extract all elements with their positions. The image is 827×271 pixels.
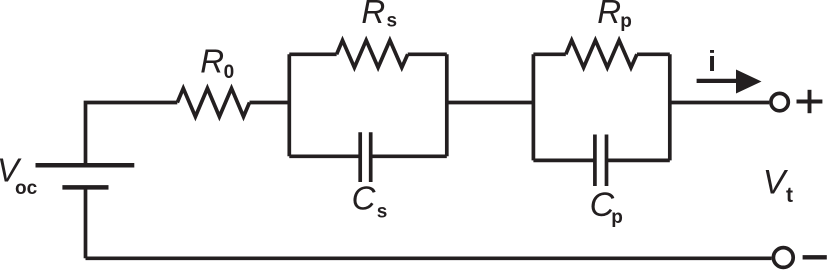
plus sign — [797, 90, 823, 113]
capacitor Cs — [360, 132, 371, 182]
wire — [408, 52, 447, 56]
svg-text:p: p — [611, 207, 623, 228]
resistor Rs — [337, 40, 408, 67]
label Vt — [763, 164, 793, 208]
svg-text:R: R — [200, 43, 224, 80]
wire — [250, 101, 290, 105]
wire — [84, 187, 88, 258]
resistor R0 — [177, 88, 249, 116]
wire — [533, 52, 565, 56]
wire — [533, 159, 595, 163]
wire — [670, 101, 769, 105]
svg-text:R: R — [597, 0, 621, 30]
svg-text:oc: oc — [15, 178, 38, 199]
label Voc — [0, 152, 38, 199]
capacitor Cp — [595, 135, 607, 187]
svg-text:s: s — [377, 201, 388, 222]
terminal - circle — [773, 248, 793, 268]
wire — [447, 101, 534, 105]
wire — [371, 154, 447, 158]
battery Voc top plate — [36, 163, 135, 168]
svg-text:i: i — [708, 46, 716, 78]
wire — [289, 52, 336, 56]
wire — [637, 52, 670, 56]
svg-text:0: 0 — [224, 62, 235, 83]
label R0 — [200, 43, 234, 83]
label Cp — [590, 186, 623, 228]
svg-text:s: s — [387, 11, 398, 32]
node: RC1 right junction — [445, 54, 449, 156]
wire — [607, 159, 670, 163]
current arrow shaft — [697, 79, 739, 83]
node: RC2 right junction — [668, 54, 672, 160]
wire — [86, 103, 178, 164]
svg-text:V: V — [763, 164, 789, 202]
svg-text:R: R — [361, 0, 385, 30]
svg-text:t: t — [786, 184, 793, 207]
wire — [86, 256, 772, 260]
svg-text:C: C — [352, 180, 377, 217]
label Cs — [352, 180, 388, 223]
terminal + circle — [771, 93, 788, 110]
label Rp — [597, 0, 632, 32]
current arrow head — [736, 70, 762, 94]
battery Voc bottom plate — [62, 185, 108, 190]
label Rs — [361, 0, 397, 32]
node: RC1 left junction — [287, 54, 291, 156]
svg-text:p: p — [620, 11, 632, 32]
resistor Rp — [566, 40, 637, 67]
node: RC2 left junction — [532, 54, 536, 160]
minus sign — [803, 255, 827, 259]
wire — [289, 154, 360, 158]
